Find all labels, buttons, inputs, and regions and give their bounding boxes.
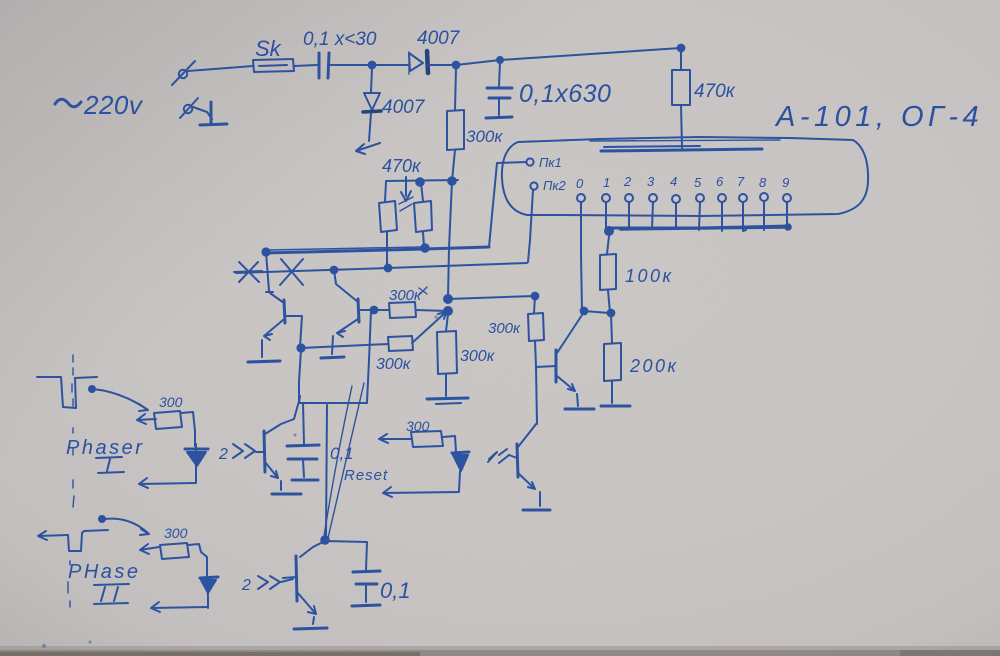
svg-text:2: 2 bbox=[218, 446, 228, 463]
svg-text:7: 7 bbox=[737, 174, 745, 189]
svg-text:PHase: PHase bbox=[68, 561, 141, 583]
svg-text:4: 4 bbox=[670, 174, 677, 189]
svg-text:0,1: 0,1 bbox=[380, 578, 411, 603]
svg-text:0,1 x<30: 0,1 x<30 bbox=[303, 29, 377, 50]
svg-text:4007: 4007 bbox=[382, 97, 426, 118]
svg-text:Пк2: Пк2 bbox=[543, 178, 567, 193]
svg-text:Phaser: Phaser bbox=[66, 437, 144, 459]
svg-text:2: 2 bbox=[623, 174, 632, 189]
svg-text:0: 0 bbox=[576, 176, 584, 191]
svg-text:300к: 300к bbox=[376, 356, 412, 373]
svg-text:300: 300 bbox=[159, 394, 183, 410]
svg-text:220v: 220v bbox=[83, 90, 144, 120]
svg-text:Sk: Sk bbox=[255, 36, 282, 61]
svg-text:4007: 4007 bbox=[417, 28, 461, 49]
svg-text:300к: 300к bbox=[389, 287, 422, 304]
svg-text:3: 3 bbox=[647, 174, 655, 189]
svg-text:5: 5 bbox=[694, 175, 702, 190]
svg-text:Пк1: Пк1 bbox=[539, 155, 562, 170]
svg-text:9: 9 bbox=[782, 175, 789, 190]
svg-text:A-101, OГ-4: A-101, OГ-4 bbox=[774, 101, 983, 133]
svg-text:470к: 470к bbox=[694, 81, 736, 102]
svg-text:300к: 300к bbox=[488, 320, 521, 337]
svg-text:200к: 200к bbox=[629, 356, 679, 376]
svg-text:300: 300 bbox=[164, 525, 188, 541]
svg-text:2: 2 bbox=[241, 577, 251, 594]
svg-text:300: 300 bbox=[406, 418, 430, 434]
svg-text:1: 1 bbox=[603, 175, 610, 190]
svg-text:0,1: 0,1 bbox=[330, 444, 354, 463]
svg-text:0,1x630: 0,1x630 bbox=[519, 80, 611, 108]
svg-text:470к: 470к bbox=[382, 156, 422, 176]
svg-text:300к: 300к bbox=[466, 127, 503, 146]
svg-text:100к: 100к bbox=[625, 266, 674, 286]
svg-text:Reset: Reset bbox=[344, 467, 388, 484]
svg-text:6: 6 bbox=[716, 174, 724, 189]
svg-text:300к: 300к bbox=[460, 348, 496, 365]
svg-text:8: 8 bbox=[759, 175, 767, 190]
